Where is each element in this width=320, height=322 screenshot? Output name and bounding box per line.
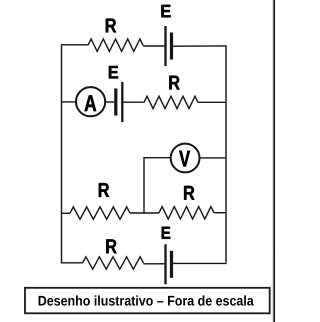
wire right vertical [225, 46, 227, 263]
wire left vertical [61, 45, 63, 263]
wire branch2 right segment [198, 101, 227, 103]
resistor R3 [70, 207, 130, 219]
wire bottom between R5 and E3 [144, 263, 165, 265]
label R5 value [106, 239, 116, 253]
resistor R5 [83, 257, 144, 269]
wire branch4 right stub [214, 212, 227, 214]
wire bottom-left segment [61, 262, 83, 264]
wire branch4 middle segment [130, 212, 159, 214]
wire bottom-right segment [173, 262, 227, 264]
wire V-branch left horizontal [144, 157, 171, 159]
battery E2 [116, 82, 123, 122]
battery E1 [166, 26, 172, 66]
caption text [39, 295, 254, 305]
wire branch2 A1-to-E2 [105, 101, 114, 103]
label E3 value [162, 227, 171, 239]
ammeter A1 [76, 87, 105, 116]
wire V-branch right segment [199, 157, 226, 159]
wire V-branch vertical drop [143, 157, 145, 213]
voltmeter V1 [171, 144, 200, 173]
caption box [25, 288, 270, 314]
label R1 value [106, 19, 116, 33]
label E2 value [109, 66, 118, 79]
label R2 value [169, 76, 179, 90]
label E1 value [161, 5, 170, 18]
battery E3 [166, 244, 172, 284]
wire top-left segment [61, 44, 88, 46]
wire branch2 E2-to-R2 [124, 101, 145, 103]
wire branch2 left segment [61, 101, 76, 103]
resistor R4 [159, 207, 214, 219]
wire top between R1 and E1 [143, 45, 164, 47]
label R3 value [99, 183, 109, 197]
resistor R1 [88, 39, 143, 51]
wire top-right segment [173, 45, 227, 47]
label R4 value [184, 186, 194, 200]
resistor R2 [144, 96, 198, 108]
wire branch4 left stub [61, 212, 70, 214]
